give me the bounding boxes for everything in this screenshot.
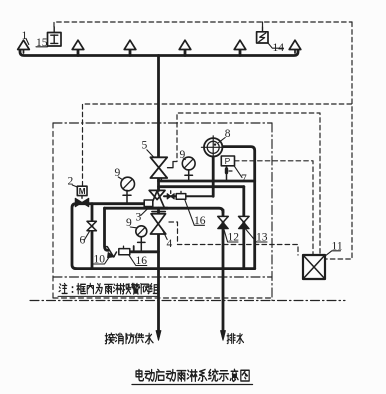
open sprinkler nozzle 1 xyxy=(18,40,30,53)
wire: drain pipe x=223 with valve12 down to drain arrow xyxy=(222,210,225,336)
open sprinkler nozzle 5 xyxy=(234,40,246,49)
wire: priming drop x=104.5 xyxy=(105,208,109,250)
stop valve 6: solid bowtie vertical xyxy=(87,221,96,230)
wire: nozzle stem N4 xyxy=(184,50,187,56)
note text: 注：框内为雨淋报警阀组 xyxy=(59,283,67,293)
svg-text:M: M xyxy=(79,187,86,196)
motorized valve 2: M actuator box xyxy=(77,186,87,198)
wire: dashed frame left x=53 xyxy=(52,123,54,298)
node: tick above small valve on 16a line xyxy=(170,191,172,194)
wire: bottom drain header y=268.6 xyxy=(76,267,255,270)
leader for label 9 right xyxy=(183,158,185,161)
wire: nozzle stem N5 xyxy=(239,50,242,56)
leader for label 9 middle xyxy=(130,226,136,229)
signal valve 4: open hourglass xyxy=(151,214,166,224)
wire: solid hook from valve 5 to control line xyxy=(168,162,174,168)
wire: detector loop dashed line top y=22 xyxy=(54,22,352,27)
leader for label 9 upper-left xyxy=(118,177,123,180)
wire: alarm line y=181 to vertical at x=254.7 xyxy=(159,180,255,183)
heat detector box 15 xyxy=(48,27,62,46)
wire: test line y=186.7 xyxy=(159,185,244,188)
wire: dash-dot frame right x=272 xyxy=(271,123,273,301)
wire: priming bottom line to riser xyxy=(130,250,159,253)
text: 接消防供水 xyxy=(105,333,114,344)
leader for label 2 xyxy=(72,185,77,187)
union flange above valve 4 xyxy=(152,211,165,213)
wire: left loop horizontal y=203.7 valve2 line xyxy=(72,204,144,269)
leader for label 5 xyxy=(147,150,154,158)
wire: dash-dot inner horizontal y=277 xyxy=(53,276,272,278)
leader for label 14 xyxy=(268,43,284,48)
pressure switch 7 (P box) xyxy=(221,156,234,181)
wire: gong down pipe xyxy=(212,157,215,196)
leader for label 16 upper with underline xyxy=(185,200,205,226)
alarm control box 11 xyxy=(303,255,325,279)
wire: deluge outlet horizontal y=208.2 xyxy=(105,208,224,212)
wire: nozzle stem N3 xyxy=(129,50,132,56)
node: tick at alarm line start xyxy=(160,177,162,181)
water motor alarm gong 8 xyxy=(201,136,225,158)
pressure gauge 9 upper-left xyxy=(121,177,135,204)
open sprinkler nozzle 2 xyxy=(72,40,84,49)
open sprinkler nozzle 4 xyxy=(179,40,191,49)
open sprinkler nozzle 6 xyxy=(289,40,301,53)
leader for label 16 lower with underline xyxy=(129,255,147,265)
text: 排水 xyxy=(227,334,235,344)
leader for label 8 xyxy=(219,138,226,143)
wire: valve13 drop pipe xyxy=(242,187,245,269)
pressure gauge 9 middle (priming line) xyxy=(136,226,147,252)
wire: valve6 branch drop x=92 xyxy=(91,204,94,269)
deluge valve 3 base line xyxy=(146,207,167,210)
wire: dashed control line from valve4 down and right to box11 xyxy=(169,222,298,255)
wire: nozzle stem N2 xyxy=(77,50,80,56)
wire: dashed control line y=104 from valve2 xyxy=(83,104,353,186)
supply arrow at bottom of riser xyxy=(156,331,161,341)
test valve 12: open bowtie on drain pipe xyxy=(218,216,229,222)
wire: main riser from manifold to valve 5 xyxy=(157,56,160,158)
globe valve 10 on priming line xyxy=(105,247,117,258)
wire: riser between valve 5 and deluge valve 3 xyxy=(157,178,160,191)
leader for label 3 xyxy=(141,207,150,216)
title: 电动启动雨淋系统示意图 xyxy=(136,369,143,380)
wire: dashed stem of detector 14 xyxy=(262,22,264,27)
pressure gauge 9 right (alarm line) xyxy=(182,157,195,181)
svg-text:7: 7 xyxy=(241,173,247,185)
drain arrow at bottom of drain pipe xyxy=(221,331,226,341)
deluge valve 3 body: open triangle pointing down xyxy=(149,190,165,199)
wire: dash-dot bottom boundary y=300.5 xyxy=(30,300,345,302)
title underline xyxy=(132,384,253,386)
note underline xyxy=(58,295,159,297)
detector box 14 with flash symbol xyxy=(257,27,268,43)
leader for label 4 xyxy=(162,229,167,240)
wire: top sprinkler manifold pipe xyxy=(20,50,298,56)
wire: dashed control line right vertical x=352 to box11 xyxy=(326,22,353,259)
wire: dashed control line y=113 from valve5 to box11 xyxy=(173,113,320,255)
control valve 5 (open hourglass) xyxy=(150,157,167,167)
small solid valve on 16a line xyxy=(167,194,174,199)
leader for label 11 with underline xyxy=(326,251,341,256)
check device 16a (box on line to gong pipe) xyxy=(176,191,186,199)
deluge valve 3 body: open triangle pointing up xyxy=(150,191,165,208)
wire: gong outlet right pipe xyxy=(222,147,254,269)
deluge valve 3 left chamber box xyxy=(144,200,153,207)
svg-text:3: 3 xyxy=(136,212,142,224)
leader for label 10 with underline xyxy=(94,256,111,264)
leader for label 13 with underline xyxy=(245,228,267,242)
test valve 13: open bowtie xyxy=(239,216,250,222)
leader for label 1 xyxy=(26,39,29,45)
wire: supply riser below funnel to bottom arrow xyxy=(157,234,160,336)
wire: dashed frame bottom y=298 xyxy=(53,297,272,299)
wire: dash-dot frame top y=123 xyxy=(53,122,272,124)
leader for label 12 with underline xyxy=(224,228,238,242)
svg-text:8: 8 xyxy=(225,128,231,140)
leader for label 6 xyxy=(84,231,90,240)
wire: riser deluge base to valve 4 xyxy=(157,208,160,215)
open sprinkler nozzle 3 xyxy=(124,40,136,49)
wire: small line from deluge to box 16a and gong pipe xyxy=(164,195,213,197)
motorized valve 2: solid bowtie xyxy=(75,198,88,206)
svg-text:P: P xyxy=(225,156,231,166)
leader for label 7 xyxy=(234,166,242,178)
svg-text:6: 6 xyxy=(80,235,86,247)
wire: dashed control line from pressure switch 7 to box11 xyxy=(235,161,314,255)
leader for label 15 xyxy=(36,45,48,47)
check device 16b (box on priming line) xyxy=(119,246,134,255)
